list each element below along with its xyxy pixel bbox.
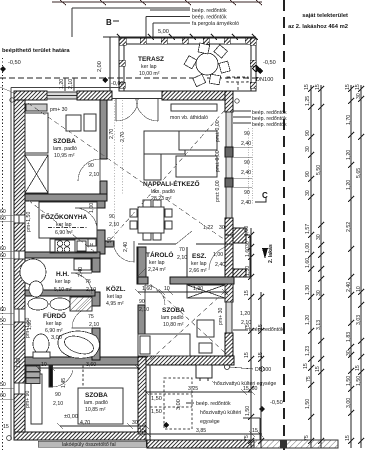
svg-text:lam. padló: lam. padló xyxy=(84,400,108,406)
svg-text:3,25: 3,25 xyxy=(188,386,198,392)
svg-text:fa pergola árnyékoló: fa pergola árnyékoló xyxy=(192,21,239,27)
svg-text:2,40: 2,40 xyxy=(123,242,129,252)
svg-text:2,00: 2,00 xyxy=(97,61,103,72)
svg-text:90: 90 xyxy=(244,190,250,196)
svg-text:10: 10 xyxy=(164,286,170,292)
svg-text:1,60: 1,60 xyxy=(305,258,311,268)
svg-text:saját telekterület: saját telekterület xyxy=(302,13,348,19)
svg-text:30: 30 xyxy=(316,234,322,240)
svg-text:TÁROLÓ: TÁROLÓ xyxy=(146,250,173,259)
svg-text:3,03: 3,03 xyxy=(356,315,362,325)
svg-text:beép. redőntök: beép. redőntök xyxy=(192,8,227,14)
svg-text:3,60: 3,60 xyxy=(86,362,96,368)
svg-text:2,70: 2,70 xyxy=(120,132,126,142)
svg-text:15: 15 xyxy=(303,363,309,369)
svg-text:2,10: 2,10 xyxy=(139,307,149,313)
svg-text:15: 15 xyxy=(345,84,351,90)
svg-text:1,20: 1,20 xyxy=(240,311,250,317)
svg-text:1,50: 1,50 xyxy=(245,406,251,416)
svg-text:10,00 m²: 10,00 m² xyxy=(139,71,160,77)
svg-text:5,10 m²: 5,10 m² xyxy=(54,287,72,293)
svg-text:1,50: 1,50 xyxy=(305,399,311,409)
svg-text:TERASZ: TERASZ xyxy=(138,56,164,63)
svg-text:pm+1,50: pm+1,50 xyxy=(25,318,31,338)
svg-text:ker lap: ker lap xyxy=(55,279,71,285)
svg-text:4,95 m²: 4,95 m² xyxy=(106,301,124,307)
svg-text:15, 60: 15, 60 xyxy=(243,386,258,392)
svg-text:90: 90 xyxy=(88,163,94,169)
svg-text:beép. redőntök: beép. redőntök xyxy=(249,327,284,333)
svg-text:pm+1,50: pm+1,50 xyxy=(26,212,32,232)
svg-text:10,80 m²: 10,80 m² xyxy=(163,322,184,328)
svg-text:15: 15 xyxy=(345,435,351,441)
svg-text:pm+ 30: pm+ 30 xyxy=(218,307,224,325)
svg-text:lakóépüly összetöltő fal: lakóépüly összetöltő fal xyxy=(62,442,116,448)
svg-text:30: 30 xyxy=(219,225,225,231)
svg-text:10: 10 xyxy=(356,286,362,292)
svg-text:90: 90 xyxy=(305,130,311,136)
svg-text:-0,02: -0,02 xyxy=(111,81,124,87)
svg-text:-0,50: -0,50 xyxy=(8,60,21,66)
svg-text:ket lap: ket lap xyxy=(107,294,122,300)
svg-text:±0,00: ±0,00 xyxy=(64,414,78,420)
svg-text:DN100: DN100 xyxy=(255,367,271,373)
svg-text:15: 15 xyxy=(258,352,264,358)
svg-text:15: 15 xyxy=(355,365,361,371)
svg-text:1,90: 1,90 xyxy=(193,286,203,292)
svg-text:90: 90 xyxy=(305,171,311,177)
svg-text:1,50: 1,50 xyxy=(151,409,162,415)
svg-text:2,40: 2,40 xyxy=(78,267,84,277)
svg-text:mon vb. áthidaló: mon vb. áthidaló xyxy=(170,115,208,121)
svg-text:KÖZL.: KÖZL. xyxy=(106,284,126,293)
svg-text:2. lakás: 2. lakás xyxy=(268,244,274,263)
svg-text:1,20: 1,20 xyxy=(346,180,352,190)
svg-text:H.H.: H.H. xyxy=(56,271,69,278)
svg-text:70: 70 xyxy=(179,247,185,253)
svg-text:1,20: 1,20 xyxy=(59,79,65,89)
svg-text:15: 15 xyxy=(244,352,250,358)
svg-text:1,30: 1,30 xyxy=(305,285,311,295)
svg-text:lam padló: lam padló xyxy=(161,315,184,321)
svg-text:DN100: DN100 xyxy=(256,77,273,83)
svg-text:1,20: 1,20 xyxy=(346,150,352,160)
svg-text:15: 15 xyxy=(304,84,310,90)
svg-text:2,52: 2,52 xyxy=(346,222,352,232)
svg-text:1,00: 1,00 xyxy=(244,226,250,236)
svg-text:75: 75 xyxy=(304,435,310,441)
svg-text:1,50: 1,50 xyxy=(151,396,162,402)
svg-text:2,10: 2,10 xyxy=(86,287,96,293)
svg-text:3,85: 3,85 xyxy=(196,428,206,434)
svg-text:hőszivattyú kültéri: hőszivattyú kültéri xyxy=(200,410,241,416)
svg-text:1,00: 1,00 xyxy=(213,252,223,258)
svg-text:FÜRDŐ: FÜRDŐ xyxy=(43,311,66,320)
svg-text:6,90 m²: 6,90 m² xyxy=(55,230,73,236)
svg-text:egysége: egysége xyxy=(200,419,220,425)
svg-text:SZOBA: SZOBA xyxy=(53,138,76,145)
svg-text:C: C xyxy=(262,191,268,200)
svg-text:2,40: 2,40 xyxy=(346,282,352,292)
svg-text:5,65: 5,65 xyxy=(356,168,362,178)
svg-text:6,90 m²: 6,90 m² xyxy=(45,328,63,334)
svg-text:30: 30 xyxy=(346,350,352,356)
svg-text:15: 15 xyxy=(139,428,145,434)
svg-text:3,00: 3,00 xyxy=(346,398,352,408)
svg-text:50: 50 xyxy=(0,382,6,388)
svg-text:15: 15 xyxy=(3,424,9,430)
svg-text:15: 15 xyxy=(355,84,361,90)
svg-text:15: 15 xyxy=(244,290,250,296)
svg-text:2,10: 2,10 xyxy=(89,322,99,328)
svg-text:10,85 m²: 10,85 m² xyxy=(85,407,106,413)
svg-text:NAPPALI-ÉTKEZŐ: NAPPALI-ÉTKEZŐ xyxy=(143,179,200,188)
svg-text:beép. redőntök: beép. redőntök xyxy=(196,401,231,407)
svg-text:30: 30 xyxy=(305,190,311,196)
svg-text:90: 90 xyxy=(55,392,61,398)
svg-text:4,70: 4,70 xyxy=(80,420,90,426)
svg-text:75: 75 xyxy=(88,314,94,320)
svg-text:2,40: 2,40 xyxy=(241,141,251,147)
svg-text:30: 30 xyxy=(356,93,362,99)
svg-text:2,40: 2,40 xyxy=(241,170,251,176)
svg-text:ker lap: ker lap xyxy=(56,222,72,228)
svg-text:3,13: 3,13 xyxy=(316,320,322,330)
svg-text:2,40: 2,40 xyxy=(241,200,251,206)
svg-text:75: 75 xyxy=(244,435,250,441)
svg-text:30: 30 xyxy=(305,146,311,152)
svg-text:50: 50 xyxy=(0,318,6,324)
svg-text:az 2. lakáshoz 464 m2: az 2. lakáshoz 464 m2 xyxy=(288,24,348,30)
svg-text:-0,50: -0,50 xyxy=(263,60,276,66)
svg-text:1,70: 1,70 xyxy=(346,115,352,125)
svg-text:15: 15 xyxy=(315,84,321,90)
svg-text:lam. padló: lam. padló xyxy=(53,146,77,152)
svg-text:pm± 0,00: pm± 0,00 xyxy=(215,150,221,172)
svg-text:90: 90 xyxy=(139,299,145,305)
svg-text:2,10: 2,10 xyxy=(68,79,74,89)
svg-text:15: 15 xyxy=(252,428,258,434)
svg-text:pm± 0,00: pm± 0,00 xyxy=(215,120,221,142)
svg-text:1,00: 1,00 xyxy=(305,243,311,253)
svg-text:FŐZŐKONYHA: FŐZŐKONYHA xyxy=(41,212,88,221)
svg-text:5,50: 5,50 xyxy=(316,165,322,175)
svg-text:30: 30 xyxy=(132,420,138,426)
svg-text:2,66 m²: 2,66 m² xyxy=(189,268,207,274)
svg-text:SZOBA: SZOBA xyxy=(85,392,108,399)
svg-text:30: 30 xyxy=(245,241,251,247)
svg-text:1,23: 1,23 xyxy=(305,346,311,356)
svg-text:1,00: 1,00 xyxy=(89,203,95,213)
svg-text:3,00: 3,00 xyxy=(51,335,62,341)
svg-text:beépíthető terület határa: beépíthető terület határa xyxy=(2,48,70,54)
svg-text:90: 90 xyxy=(244,131,250,137)
svg-text:30: 30 xyxy=(316,290,322,296)
svg-text:pm± 0,00: pm± 0,00 xyxy=(215,180,221,202)
svg-text:1,45: 1,45 xyxy=(61,378,67,388)
svg-text:pm+ 90: pm+ 90 xyxy=(25,390,31,408)
svg-text:10: 10 xyxy=(41,362,47,368)
svg-text:pm+ 30: pm+ 30 xyxy=(50,107,68,113)
svg-text:2,10: 2,10 xyxy=(177,255,187,261)
svg-text:60: 60 xyxy=(0,307,6,313)
svg-text:3,00: 3,00 xyxy=(176,399,182,410)
svg-text:90: 90 xyxy=(244,160,250,166)
svg-text:2,10: 2,10 xyxy=(53,401,63,407)
svg-text:1,25: 1,25 xyxy=(305,96,311,106)
svg-text:ker lap: ker lap xyxy=(46,321,62,327)
svg-text:ker lap: ker lap xyxy=(191,261,207,267)
svg-text:beép. redőntök: beép. redőntök xyxy=(192,15,227,21)
svg-text:15: 15 xyxy=(315,366,321,372)
svg-text:1,83: 1,83 xyxy=(346,332,352,342)
svg-text:beép. redőntök: beép. redőntök xyxy=(252,122,287,128)
svg-text:2,40: 2,40 xyxy=(215,262,225,268)
svg-text:ESZ.: ESZ. xyxy=(192,253,207,260)
svg-text:1,60: 1,60 xyxy=(142,286,152,292)
svg-text:60: 60 xyxy=(0,209,6,215)
svg-text:ker lap: ker lap xyxy=(141,64,157,70)
svg-text:75: 75 xyxy=(245,324,251,330)
svg-text:2,24 m²: 2,24 m² xyxy=(148,267,166,273)
svg-text:10,95 m²: 10,95 m² xyxy=(54,153,75,159)
svg-text:1,50: 1,50 xyxy=(356,376,362,386)
svg-text:ker lap: ker lap xyxy=(149,260,165,266)
svg-text:B: B xyxy=(106,18,112,27)
svg-text:60: 60 xyxy=(0,393,6,399)
svg-text:15: 15 xyxy=(258,324,264,330)
svg-text:1,60: 1,60 xyxy=(245,247,251,257)
svg-text:5,00: 5,00 xyxy=(158,29,169,35)
svg-text:1,30: 1,30 xyxy=(245,266,251,276)
svg-text:1,20: 1,20 xyxy=(305,315,311,325)
svg-text:76: 76 xyxy=(85,279,91,285)
svg-text:1,00: 1,00 xyxy=(16,358,22,368)
svg-text:2,10: 2,10 xyxy=(89,172,99,178)
svg-text:H: H xyxy=(90,242,93,247)
svg-text:75: 75 xyxy=(306,376,312,382)
svg-text:-0,50: -0,50 xyxy=(270,400,283,406)
svg-text:1,50: 1,50 xyxy=(346,376,352,386)
svg-text:1,57: 1,57 xyxy=(305,224,311,234)
